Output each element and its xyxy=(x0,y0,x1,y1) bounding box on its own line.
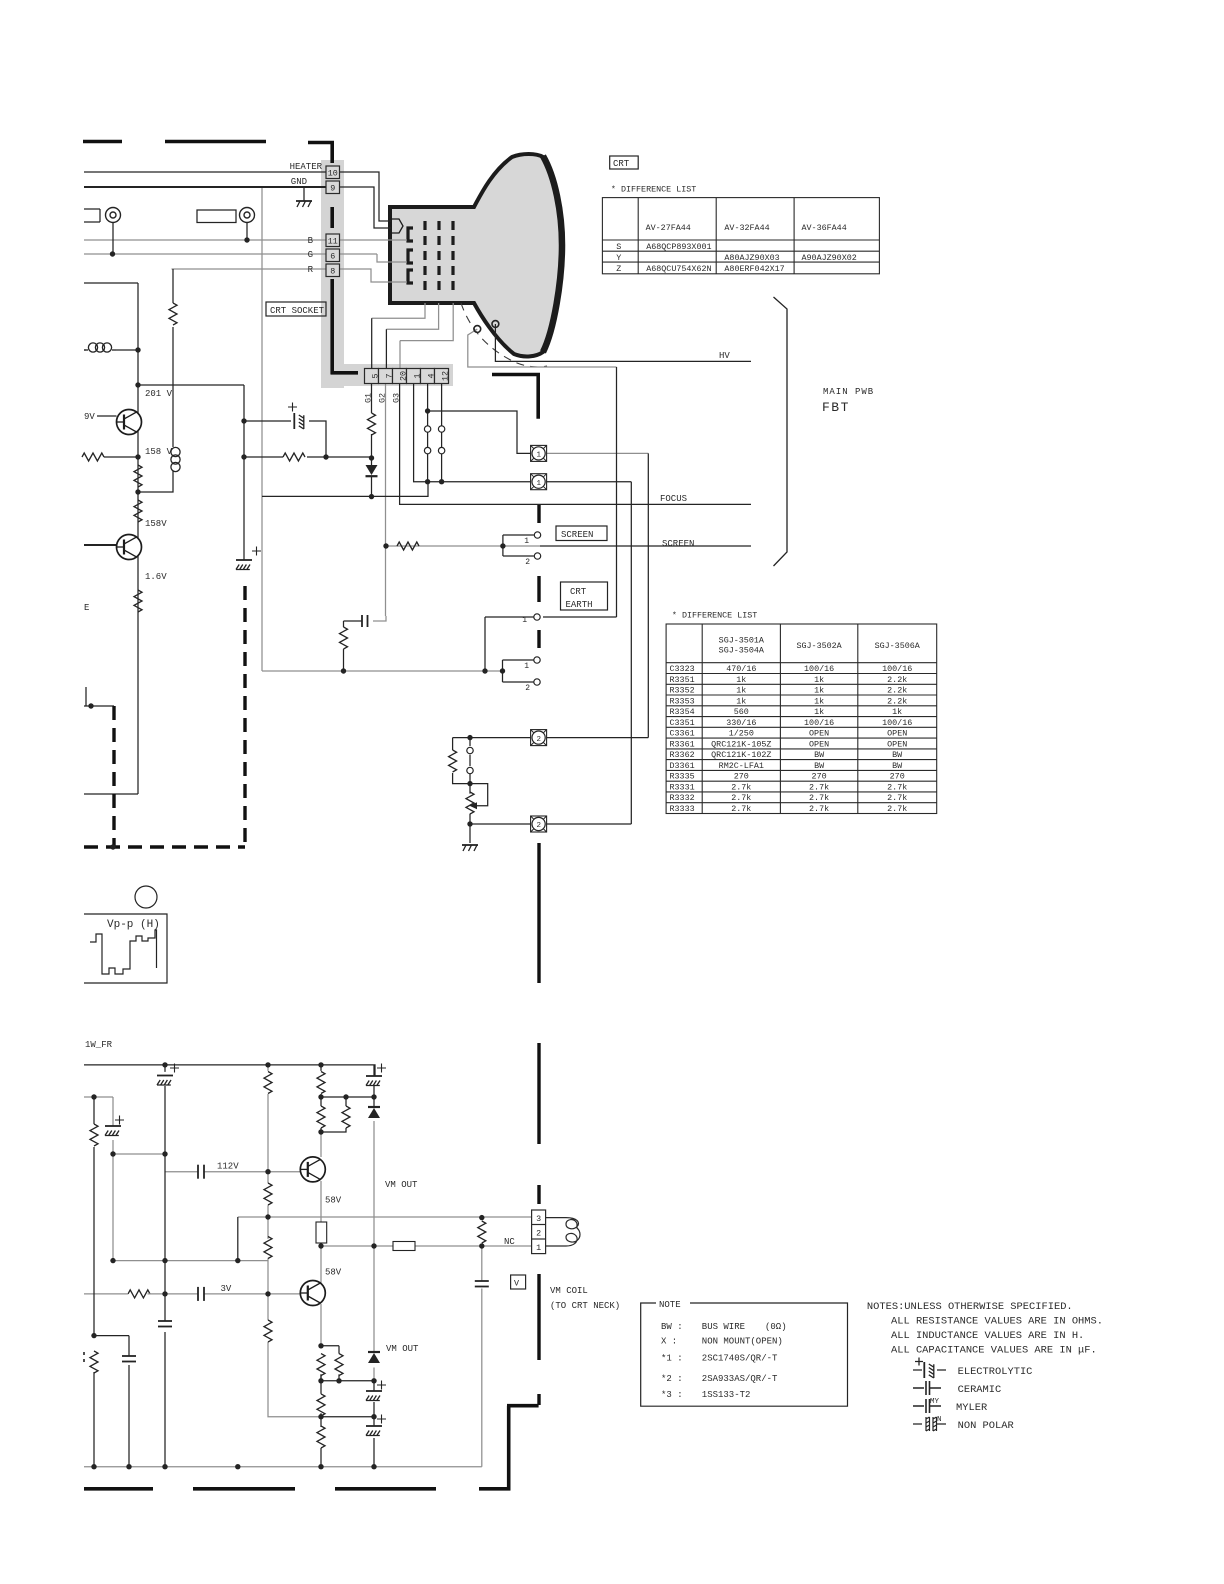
svg-text:V: V xyxy=(514,1279,519,1289)
svg-text:2.7k: 2.7k xyxy=(887,793,907,803)
svg-text:470/16: 470/16 xyxy=(726,664,756,674)
svg-text:OPEN: OPEN xyxy=(809,739,829,749)
svg-text:158 V: 158 V xyxy=(145,447,173,457)
svg-text:2.7k: 2.7k xyxy=(731,804,751,814)
svg-text:CRT: CRT xyxy=(570,587,587,597)
svg-text:C3323: C3323 xyxy=(670,664,695,674)
svg-text:9V: 9V xyxy=(84,412,95,422)
svg-text:R3351: R3351 xyxy=(670,675,695,685)
svg-text:R3362: R3362 xyxy=(670,750,695,760)
svg-text:1: 1 xyxy=(522,616,527,625)
svg-text:C3361: C3361 xyxy=(670,729,695,739)
svg-text:1k: 1k xyxy=(736,686,746,696)
svg-text:SCREEN: SCREEN xyxy=(561,530,593,540)
svg-text:C3351: C3351 xyxy=(670,718,695,728)
svg-text:* DIFFERENCE LIST: * DIFFERENCE LIST xyxy=(672,611,757,621)
svg-text:1k: 1k xyxy=(814,707,824,717)
svg-text:*1 :: *1 : xyxy=(661,1354,683,1364)
svg-text:A80AJZ90X03: A80AJZ90X03 xyxy=(724,253,779,263)
svg-text:6: 6 xyxy=(330,252,335,262)
svg-text:330/16: 330/16 xyxy=(726,718,756,728)
svg-text:2SC1740S/QR/-T: 2SC1740S/QR/-T xyxy=(702,1354,778,1364)
svg-text:R3331: R3331 xyxy=(670,782,695,792)
svg-text:G: G xyxy=(308,250,313,260)
svg-text:AV-36FA44: AV-36FA44 xyxy=(802,223,847,233)
svg-text:*2 :: *2 : xyxy=(661,1374,683,1384)
svg-text:2.7k: 2.7k xyxy=(809,782,829,792)
svg-text:158V: 158V xyxy=(145,519,167,529)
svg-text:2SA933AS/QR/-T: 2SA933AS/QR/-T xyxy=(702,1374,778,1384)
svg-text:(0Ω): (0Ω) xyxy=(765,1322,787,1332)
svg-text:EARTH: EARTH xyxy=(566,600,593,610)
svg-text:1/250: 1/250 xyxy=(729,729,754,739)
svg-text:BW: BW xyxy=(892,761,903,771)
svg-text:560: 560 xyxy=(734,707,749,717)
svg-text:2.7k: 2.7k xyxy=(887,782,907,792)
svg-text:2: 2 xyxy=(537,822,542,830)
svg-text:G3: G3 xyxy=(392,393,402,403)
svg-text:G2: G2 xyxy=(378,393,388,403)
svg-text:SCREEN: SCREEN xyxy=(662,539,694,549)
svg-text:R3353: R3353 xyxy=(670,696,695,706)
svg-text:1: 1 xyxy=(537,452,542,460)
svg-text:Vp-p (H): Vp-p (H) xyxy=(107,919,160,931)
svg-text:1: 1 xyxy=(524,662,529,671)
svg-text:NON POLAR: NON POLAR xyxy=(958,1420,1014,1432)
svg-text:SGJ-3504A: SGJ-3504A xyxy=(719,646,765,656)
svg-text:VM OUT: VM OUT xyxy=(386,1344,419,1354)
svg-text:OPEN: OPEN xyxy=(809,729,829,739)
svg-text:1: 1 xyxy=(536,1243,541,1253)
svg-text:1: 1 xyxy=(537,480,542,488)
svg-text:R3352: R3352 xyxy=(670,686,695,696)
svg-text:1: 1 xyxy=(413,373,423,378)
svg-text:BW: BW xyxy=(892,750,903,760)
svg-text:A68QCP893X001: A68QCP893X001 xyxy=(646,242,711,252)
svg-text:58V: 58V xyxy=(325,1268,342,1278)
svg-text:NOTE: NOTE xyxy=(659,1300,681,1310)
svg-text:MYLER: MYLER xyxy=(956,1402,987,1414)
svg-text:7: 7 xyxy=(385,373,395,378)
svg-text:R3361: R3361 xyxy=(670,739,695,749)
svg-text:2: 2 xyxy=(525,558,530,567)
svg-text:2.7k: 2.7k xyxy=(731,793,751,803)
svg-text:8: 8 xyxy=(330,267,335,277)
svg-text:2.7k: 2.7k xyxy=(731,782,751,792)
svg-text:D3361: D3361 xyxy=(670,761,695,771)
svg-text:N: N xyxy=(937,1416,942,1424)
svg-text:1k: 1k xyxy=(892,707,902,717)
svg-text:100/16: 100/16 xyxy=(804,664,834,674)
svg-text:Y: Y xyxy=(616,253,621,263)
svg-text:OPEN: OPEN xyxy=(887,739,907,749)
svg-text:3: 3 xyxy=(536,1214,541,1224)
svg-text:100/16: 100/16 xyxy=(882,664,912,674)
svg-text:A80ERF042X17: A80ERF042X17 xyxy=(724,264,784,274)
svg-text:ALL INDUCTANCE VALUES ARE IN H: ALL INDUCTANCE VALUES ARE IN H. xyxy=(891,1330,1084,1342)
svg-text:SGJ-3502A: SGJ-3502A xyxy=(796,641,842,651)
svg-text:(TO CRT NECK): (TO CRT NECK) xyxy=(550,1301,620,1311)
svg-text:ALL RESISTANCE VALUES ARE IN O: ALL RESISTANCE VALUES ARE IN OHMS. xyxy=(891,1316,1103,1328)
svg-text:NOTES:UNLESS OTHERWISE SPECIFI: NOTES:UNLESS OTHERWISE SPECIFIED. xyxy=(867,1301,1073,1313)
svg-text:4: 4 xyxy=(427,373,437,378)
svg-text:1: 1 xyxy=(524,537,529,546)
svg-text:2.2k: 2.2k xyxy=(887,686,907,696)
svg-text:1k: 1k xyxy=(736,696,746,706)
svg-text:E: E xyxy=(84,603,89,613)
svg-text:2.7k: 2.7k xyxy=(809,804,829,814)
svg-text:20: 20 xyxy=(399,371,409,381)
svg-text:270: 270 xyxy=(734,772,749,782)
svg-text:270: 270 xyxy=(812,772,827,782)
svg-text:2: 2 xyxy=(537,736,542,744)
svg-text:CRT SOCKET: CRT SOCKET xyxy=(270,306,325,316)
svg-text:VM COIL: VM COIL xyxy=(550,1286,588,1296)
svg-text:R: R xyxy=(308,265,314,275)
svg-text:1W_FR: 1W_FR xyxy=(85,1040,113,1050)
svg-text:MAIN PWB: MAIN PWB xyxy=(823,387,874,397)
svg-text:VM OUT: VM OUT xyxy=(385,1180,418,1190)
svg-text:A68QCU754X62N: A68QCU754X62N xyxy=(646,264,711,274)
svg-text:BUS WIRE: BUS WIRE xyxy=(702,1322,745,1332)
svg-text:5: 5 xyxy=(371,373,381,378)
svg-text:QRC121K-102Z: QRC121K-102Z xyxy=(711,750,771,760)
svg-text:201 V: 201 V xyxy=(145,389,173,399)
svg-text:100/16: 100/16 xyxy=(882,718,912,728)
svg-text:BW :: BW : xyxy=(661,1322,683,1332)
svg-text:NC: NC xyxy=(504,1237,515,1247)
svg-text:CERAMIC: CERAMIC xyxy=(958,1384,1002,1396)
svg-text:HV: HV xyxy=(719,351,730,361)
svg-text:100/16: 100/16 xyxy=(804,718,834,728)
svg-text:R3354: R3354 xyxy=(670,707,695,717)
svg-text:ALL CAPACITANCE VALUES ARE IN: ALL CAPACITANCE VALUES ARE IN μF. xyxy=(891,1345,1097,1357)
svg-text:3V: 3V xyxy=(221,1284,232,1294)
svg-text:X :: X : xyxy=(661,1337,677,1347)
svg-text:10: 10 xyxy=(328,169,338,179)
svg-text:OPEN: OPEN xyxy=(887,729,907,739)
svg-text:A90AJZ90X02: A90AJZ90X02 xyxy=(802,253,857,263)
svg-text:2: 2 xyxy=(536,1229,541,1239)
svg-text:SGJ-3506A: SGJ-3506A xyxy=(875,641,921,651)
svg-text:1k: 1k xyxy=(814,675,824,685)
svg-text:1k: 1k xyxy=(814,686,824,696)
svg-text:58V: 58V xyxy=(325,1196,342,1206)
svg-text:1k: 1k xyxy=(736,675,746,685)
svg-text:R3332: R3332 xyxy=(670,793,695,803)
svg-text:*3 :: *3 : xyxy=(661,1390,683,1400)
svg-text:270: 270 xyxy=(890,772,905,782)
svg-text:112V: 112V xyxy=(217,1162,239,1172)
svg-text:SGJ-3501A: SGJ-3501A xyxy=(719,636,765,646)
svg-text:NON MOUNT(OPEN): NON MOUNT(OPEN) xyxy=(702,1337,783,1347)
svg-text:R3335: R3335 xyxy=(670,772,695,782)
svg-text:AV-27FA44: AV-27FA44 xyxy=(646,223,691,233)
svg-text:CRT: CRT xyxy=(613,159,630,169)
svg-text:BW: BW xyxy=(814,750,825,760)
svg-text:ELECTROLYTIC: ELECTROLYTIC xyxy=(958,1366,1033,1378)
svg-text:BW: BW xyxy=(814,761,825,771)
svg-text:HEATER: HEATER xyxy=(290,162,323,172)
svg-text:1SS133-T2: 1SS133-T2 xyxy=(702,1390,751,1400)
svg-text:1.6V: 1.6V xyxy=(145,572,167,582)
svg-text:2.2k: 2.2k xyxy=(887,696,907,706)
svg-text:RM2C-LFA1: RM2C-LFA1 xyxy=(719,761,764,771)
svg-text:2.7k: 2.7k xyxy=(809,793,829,803)
svg-text:1k: 1k xyxy=(814,696,824,706)
svg-text:R3333: R3333 xyxy=(670,804,695,814)
svg-text:11: 11 xyxy=(328,237,338,247)
svg-text:MY: MY xyxy=(930,1398,940,1406)
svg-text:FBT: FBT xyxy=(822,400,850,415)
svg-text:AV-32FA44: AV-32FA44 xyxy=(724,223,769,233)
svg-text:FOCUS: FOCUS xyxy=(660,494,687,504)
svg-text:Z: Z xyxy=(616,264,621,274)
svg-text:G1: G1 xyxy=(364,393,374,403)
svg-text:2.7k: 2.7k xyxy=(887,804,907,814)
svg-text:9: 9 xyxy=(330,184,335,194)
svg-text:* DIFFERENCE LIST: * DIFFERENCE LIST xyxy=(611,185,696,195)
svg-text:12: 12 xyxy=(441,371,451,381)
svg-text:GND: GND xyxy=(291,177,307,187)
svg-text:B: B xyxy=(308,236,314,246)
svg-text:2: 2 xyxy=(525,684,530,693)
svg-text:S: S xyxy=(616,242,621,252)
svg-text:QRC121K-105Z: QRC121K-105Z xyxy=(711,739,771,749)
svg-text:2.2k: 2.2k xyxy=(887,675,907,685)
